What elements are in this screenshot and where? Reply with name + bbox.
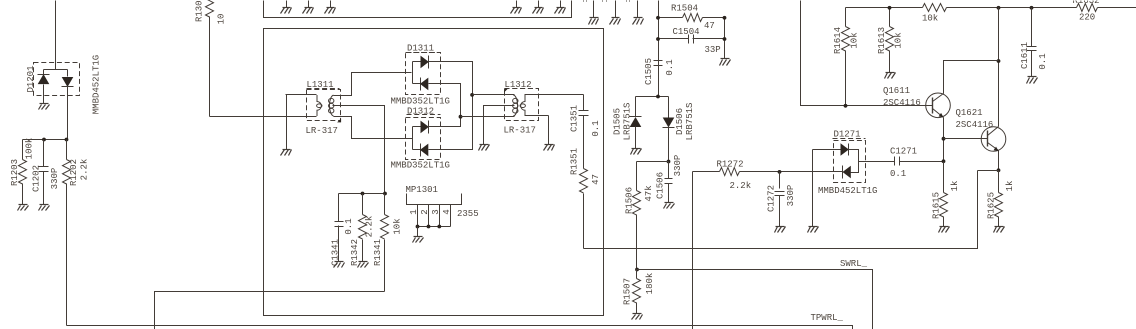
label R1202 2.2k	[69, 159, 90, 186]
svg-text:330P: 330P	[786, 185, 796, 207]
svg-text:47: 47	[704, 21, 715, 31]
wire node A to L1312 bottom	[461, 116, 515, 118]
svg-text:R1341: R1341	[373, 239, 383, 266]
wire to D1201 top	[55, 1, 57, 63]
resistor 220 (top right)	[1077, 4, 1136, 12]
svg-text:10k: 10k	[850, 32, 860, 48]
net SWRL_	[637, 259, 873, 329]
junction dot	[667, 160, 671, 164]
resistor R1303	[206, 0, 214, 117]
resistor R1202	[63, 140, 71, 326]
junction dot	[778, 170, 782, 174]
label C1506 330P	[656, 155, 684, 199]
svg-text:D1505: D1505	[613, 108, 623, 135]
dual diode D1312	[411, 121, 429, 157]
ground (L1312 sec)	[544, 145, 555, 151]
svg-text:10k: 10k	[922, 13, 938, 23]
wire R1504/C1504 right	[724, 18, 726, 59]
ground (top stub #1)	[589, 1, 599, 25]
label MMBD452LT1G (D1201)	[92, 55, 102, 114]
svg-text:1k: 1k	[1005, 181, 1015, 192]
resistor R1203	[19, 140, 27, 205]
junction dot	[888, 6, 892, 10]
resistor 10k (top rail)	[923, 4, 1077, 12]
svg-text:330P: 330P	[673, 155, 683, 177]
label R1625 1k	[987, 181, 1016, 219]
resistor R1351	[580, 169, 588, 249]
svg-text:SWRL_: SWRL_	[840, 259, 868, 269]
svg-text:R1614: R1614	[833, 27, 843, 54]
svg-text:330P: 330P	[50, 168, 60, 190]
svg-text:0.1: 0.1	[665, 59, 675, 75]
transformer L1312 dashed box	[505, 89, 539, 121]
svg-text:R1625: R1625	[987, 192, 997, 219]
transformer L1311 dashed box	[307, 90, 341, 121]
transformer L1312 primary coil	[513, 95, 518, 116]
svg-text:D1201: D1201	[26, 65, 36, 92]
ground (C1341)	[334, 262, 345, 268]
label C1611 0.1	[1020, 42, 1048, 70]
svg-text:0.1: 0.1	[591, 120, 601, 136]
box frame main isolation block	[264, 29, 604, 316]
transformer L1311 primary	[286, 95, 322, 117]
svg-text:0.1: 0.1	[344, 218, 354, 234]
svg-text:220: 220	[1079, 13, 1095, 23]
svg-text:R1272: R1272	[717, 160, 744, 170]
svg-text:C1351: C1351	[570, 105, 580, 132]
junction dots	[656, 16, 726, 41]
label LR-317 (L1311)	[306, 126, 338, 136]
box frame upper shield	[264, 1, 572, 18]
junction dot Q1621 base	[942, 137, 946, 141]
svg-text:C1271: C1271	[890, 147, 917, 157]
pin numbers MP1301	[409, 209, 452, 214]
label 2355	[457, 209, 479, 219]
svg-text:3: 3	[431, 209, 441, 214]
svg-text:R1203: R1203	[10, 159, 20, 186]
dual diode D1311	[413, 56, 429, 91]
svg-text:10k: 10k	[393, 218, 403, 234]
resistor R1625	[995, 171, 1003, 227]
junction dots	[42, 138, 68, 142]
ground (C1611)	[1027, 77, 1038, 84]
resistor R1506	[633, 162, 641, 270]
ground (top stub #3)	[633, 1, 644, 25]
label R1506 47k	[625, 185, 655, 214]
label R1613 10k	[877, 27, 904, 54]
wire Q1621 emitter tap	[978, 170, 999, 172]
capacitor C1506	[665, 162, 673, 203]
net TPWRL_	[67, 313, 853, 329]
svg-text:2SC4116: 2SC4116	[883, 98, 921, 108]
ground (MP1301)	[413, 227, 424, 243]
capacitor C1202	[39, 140, 49, 205]
cut-off label above 220	[1073, 0, 1100, 6]
svg-text:180k: 180k	[645, 273, 655, 295]
svg-text:4: 4	[442, 209, 452, 214]
label L1311	[307, 80, 340, 90]
svg-text:R1507: R1507	[623, 278, 633, 305]
capacitor C1504	[659, 35, 725, 44]
ground (D1201)	[39, 104, 50, 110]
ground (R1203)	[18, 205, 29, 211]
wire Q1611 base feed	[801, 1, 933, 106]
svg-text:MMBD452LT1G: MMBD452LT1G	[818, 186, 877, 196]
junction dot	[635, 268, 639, 272]
label R1507 180k	[623, 273, 656, 305]
ground (inside upper box #5)	[533, 1, 544, 14]
svg-text:MMBD452LT1G: MMBD452LT1G	[92, 55, 102, 114]
wire R1303 to L1311	[210, 116, 286, 118]
svg-text:MP1301: MP1301	[406, 185, 438, 195]
ground (D1505)	[631, 149, 642, 155]
node wire R1506/C1506	[637, 161, 669, 163]
wire D1311 top out / node B	[429, 62, 473, 150]
wire L1311 primary to ground	[286, 95, 288, 150]
ground (top stub #2)	[610, 1, 621, 25]
junction dot node A	[459, 115, 463, 119]
svg-text:LRB751S: LRB751S	[623, 103, 633, 141]
label R1342 2.2k	[350, 216, 375, 266]
ground (R1613)	[885, 73, 896, 79]
wire L1312 mid tap to ground	[484, 106, 514, 145]
svg-text:Q1621: Q1621	[956, 108, 983, 118]
svg-text:C1202: C1202	[32, 165, 42, 192]
svg-text:C1611: C1611	[1020, 42, 1030, 69]
svg-text:C1272: C1272	[767, 185, 777, 212]
svg-text:1: 1	[409, 209, 419, 214]
label 220	[1079, 13, 1095, 23]
ground (inside upper box #3)	[325, 1, 336, 14]
svg-text:C1506: C1506	[656, 172, 666, 199]
svg-text:Q1611: Q1611	[883, 86, 910, 96]
label R1303 10	[195, 0, 227, 24]
junction dots	[361, 192, 387, 196]
label Q1611 2SC4116	[883, 86, 921, 108]
svg-text:47k: 47k	[644, 185, 654, 201]
cut-off marks top edge	[584, 1, 630, 2]
label D1311	[407, 44, 441, 54]
svg-text:10: 10	[217, 14, 227, 25]
label R1614 10k	[833, 27, 860, 54]
capacitor C1351	[579, 95, 589, 169]
label R1341 10k	[373, 218, 403, 266]
phase mark (L1311)	[337, 119, 341, 123]
label D1505 LRB751S	[613, 103, 633, 141]
phase mark (L1312)	[504, 89, 508, 93]
transistor Q1611	[926, 61, 999, 162]
wire collector rail Q1611/Q1621	[998, 8, 1000, 127]
junction dot	[656, 95, 660, 99]
label C1271 0.1	[890, 147, 917, 180]
junction dot	[997, 59, 1001, 63]
capacitor C1272	[775, 172, 785, 227]
svg-text:2.2k: 2.2k	[80, 159, 90, 181]
ground (C1504)	[720, 59, 731, 66]
svg-text:2SC4116: 2SC4116	[956, 120, 994, 130]
dual diode D1271	[813, 143, 895, 178]
wire node B to L1312 top	[473, 94, 515, 96]
label R1272 2.2k	[717, 160, 752, 192]
ground (C1272)	[775, 227, 786, 233]
label D1506 LRB751S	[675, 103, 695, 141]
label C1272 330P	[767, 185, 797, 212]
resistor R1615	[940, 162, 948, 227]
resistor R1342	[359, 194, 367, 262]
svg-text:LR-317: LR-317	[504, 125, 536, 135]
wire L1311 sec mid tap	[333, 106, 385, 194]
junction dot C1271 node	[942, 159, 946, 163]
label R1351 47	[570, 148, 602, 185]
svg-text:R1303: R1303	[195, 0, 205, 22]
label R1504 47	[671, 4, 715, 32]
dual diode D1201	[34, 63, 80, 140]
dual diode D1312 dashed box	[406, 118, 441, 160]
resistor R1504	[659, 14, 725, 22]
svg-text:33P: 33P	[705, 45, 721, 55]
svg-text:2355: 2355	[457, 209, 479, 219]
svg-text:R1351: R1351	[570, 148, 580, 175]
svg-text:R1506: R1506	[625, 187, 635, 214]
wire L1312 secondary to ground	[548, 116, 550, 145]
diode D1506	[663, 97, 675, 162]
svg-text:MMBD352LT1G: MMBD352LT1G	[391, 97, 450, 107]
node wire D1505/D1506	[636, 96, 669, 98]
wire R1351 to Q1621 emitter line	[584, 171, 978, 249]
label MMBD452LT1G (D1271)	[818, 186, 877, 196]
ground (C1202)	[39, 205, 50, 211]
transformer L1312 secondary	[520, 95, 584, 116]
svg-text:D1506: D1506	[675, 108, 685, 135]
dual diode D1311 dashed box	[406, 53, 441, 95]
svg-text:R1613: R1613	[877, 27, 887, 54]
label D1271	[833, 130, 866, 140]
ground (R1615)	[939, 227, 950, 233]
svg-text:0.1: 0.1	[1038, 53, 1048, 69]
svg-text:R1615: R1615	[932, 192, 942, 219]
label D1312	[407, 107, 441, 117]
svg-text:2: 2	[420, 209, 430, 214]
label C1351 0.1	[570, 105, 602, 137]
ground (inside upper box #6)	[555, 1, 566, 14]
junction dot node B	[470, 93, 474, 97]
label LR-317 (L1312)	[504, 125, 536, 135]
node wire C1341/R1342/R1341	[339, 193, 385, 195]
label MMBD352LT1G (D1311)	[391, 97, 450, 107]
ground (inside upper box #4)	[511, 1, 522, 14]
label C1504 33P	[673, 27, 721, 55]
capacitor C1505	[654, 61, 663, 66]
resistor R1272	[693, 168, 843, 176]
label L1312	[505, 80, 538, 90]
capacitor C1271	[895, 157, 944, 166]
label R1615 1k	[932, 181, 961, 219]
transistor Q1621	[981, 127, 1006, 171]
wire D1311 bottom out / node A	[429, 84, 461, 127]
wire TPWRL riser	[692, 172, 694, 329]
resistor R1507	[633, 270, 641, 314]
wire D1271 to ground	[812, 150, 814, 227]
resistor R1613	[886, 8, 894, 73]
label D1201	[26, 65, 36, 92]
svg-text:MMBD352LT1G: MMBD352LT1G	[391, 160, 450, 170]
ground (inside upper box #1)	[281, 1, 292, 14]
label C1202 330P	[32, 165, 61, 192]
ground (inside upper box #2)	[303, 1, 314, 14]
junction dot Q1621 emitter	[997, 168, 1001, 172]
ground (L1312 mid)	[479, 145, 490, 151]
svg-text:100k: 100k	[25, 138, 35, 160]
label Q1621 2SC4116	[956, 108, 994, 130]
svg-text:2.2k: 2.2k	[730, 181, 752, 191]
diode D1505	[630, 97, 642, 149]
svg-text:2.2k: 2.2k	[365, 216, 375, 238]
ground (C1506)	[664, 203, 675, 209]
label 10k	[922, 13, 938, 23]
wire Q1621 base	[944, 138, 988, 140]
label C1341 0.1	[331, 218, 355, 266]
junction dots MP1301	[416, 225, 442, 229]
dual diode D1271 dashed box	[834, 141, 866, 183]
junction dot	[844, 104, 848, 108]
ground (R1507)	[632, 314, 643, 320]
transformer L1311 secondary coil	[329, 95, 334, 116]
svg-text:R1202: R1202	[69, 159, 79, 186]
ground (R1342)	[358, 262, 369, 268]
ground (L1311)	[281, 150, 292, 156]
svg-text:47: 47	[591, 174, 601, 185]
wire R1341 bottom run	[155, 292, 385, 329]
svg-text:0.1: 0.1	[890, 169, 906, 179]
ground (R1625)	[994, 227, 1005, 233]
label C1505 0.1	[644, 58, 675, 85]
node wire R1203/C1202/R1202	[23, 139, 68, 141]
wire L1311 sec top to D1311	[334, 73, 412, 96]
wire C1505 vertical	[658, 1, 660, 97]
svg-text:LR-317: LR-317	[306, 126, 338, 136]
svg-text:C1504: C1504	[673, 27, 700, 37]
label MMBD352LT1G (D1312)	[391, 160, 450, 170]
svg-text:10k: 10k	[894, 32, 904, 48]
resistor R1341	[381, 194, 389, 292]
svg-text:C1505: C1505	[644, 58, 654, 85]
svg-text:1k: 1k	[950, 181, 960, 192]
svg-text:R1504: R1504	[671, 4, 698, 14]
resistor R1614	[842, 8, 850, 106]
connector MP1301	[406, 185, 462, 227]
svg-text:LRB751S: LRB751S	[685, 103, 695, 141]
wire top rail	[846, 7, 923, 9]
capacitor C1611	[1027, 8, 1037, 77]
ground (D1271)	[808, 227, 819, 233]
capacitor C1341	[335, 194, 344, 262]
junction dots top rail	[997, 6, 1034, 10]
label R1203 100k	[10, 138, 35, 186]
svg-text:TPWRL_: TPWRL_	[811, 313, 844, 323]
wire L1311 sec bottom to D1312	[334, 117, 411, 139]
